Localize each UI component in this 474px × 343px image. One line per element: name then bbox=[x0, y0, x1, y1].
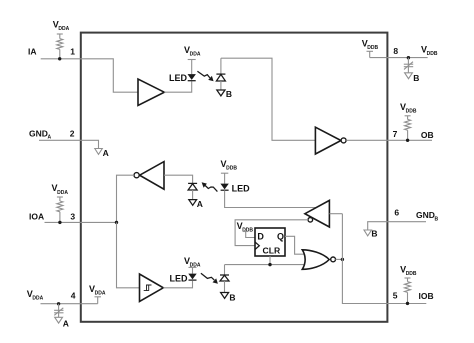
junction pin4/C1 bbox=[57, 302, 60, 305]
internal VDDA tap at pin 4 bbox=[81, 297, 101, 304]
capacitor C1 (VDDA bypass) bbox=[54, 304, 63, 318]
ground A (photodiode D5) bbox=[189, 200, 197, 206]
junction IOA internal node bbox=[115, 221, 118, 224]
pin 2 label GNDA bbox=[29, 128, 52, 140]
IOB internal vertical net bbox=[342, 214, 387, 304]
svg-text:GND: GND bbox=[416, 210, 435, 220]
svg-text:IOA: IOA bbox=[29, 212, 44, 222]
ground B (photodiode D6) bbox=[221, 293, 229, 299]
svg-text:8: 8 bbox=[393, 46, 398, 56]
wire U3 input from photodiode D5 bbox=[164, 175, 193, 183]
supply label VDDB (LED D2) bbox=[221, 159, 238, 172]
supply label VDDB (pin 5 pull-up) bbox=[400, 264, 417, 277]
pin 4 external wire bbox=[41, 303, 81, 305]
wire U2 output to pin 7 bbox=[346, 139, 387, 141]
photodiode D5 (receive, channel 2) bbox=[188, 183, 197, 199]
VDDA supply bar and wire to LED D1 anode bbox=[188, 60, 196, 75]
svg-text:1: 1 bbox=[70, 46, 75, 56]
svg-text:DDA: DDA bbox=[32, 296, 43, 302]
wire U4 input from IOB node bbox=[329, 213, 342, 215]
optical path arrow channel 2 bbox=[202, 182, 218, 191]
supply label VDDA (LED D1) bbox=[184, 45, 201, 58]
wire CLR to receive net bbox=[269, 256, 271, 265]
svg-text:A: A bbox=[63, 319, 69, 329]
NOR gate G1 bbox=[302, 250, 329, 269]
svg-text:DDA: DDA bbox=[95, 291, 106, 297]
ground A (pin 2) bbox=[95, 149, 103, 155]
svg-text:LED: LED bbox=[170, 273, 189, 283]
pin 5 external wire bbox=[387, 303, 426, 305]
supply label VDDB (pin 7 pull-up) bbox=[400, 102, 417, 115]
IC body outline bbox=[81, 33, 388, 322]
pin 1 external wire bbox=[41, 58, 81, 60]
VDDA supply bar and wire to LED D3 anode bbox=[189, 267, 197, 273]
pin 1 internal wire to buffer U1 bbox=[81, 59, 138, 92]
wire LED D2 cathode to buffer U4 output bbox=[225, 190, 317, 207]
svg-text:A: A bbox=[103, 148, 109, 158]
U4 inverting output bubble bbox=[308, 218, 313, 223]
svg-text:3: 3 bbox=[70, 211, 75, 221]
svg-text:GND: GND bbox=[29, 128, 48, 138]
pin 7 external wire bbox=[387, 139, 432, 141]
svg-text:OB: OB bbox=[421, 130, 434, 140]
buffer U1 (channel A to B driver) bbox=[138, 79, 164, 106]
resistor R2 (VDDA pull-up on IOA) bbox=[57, 197, 63, 222]
svg-text:B: B bbox=[413, 73, 419, 83]
wire G1 output to IOB node bbox=[336, 258, 343, 260]
junction CLR/receive net bbox=[268, 263, 271, 266]
ground B (pin 8 bypass) bbox=[405, 73, 413, 79]
supply label VDDA (pin 3 pull-up) bbox=[52, 183, 69, 196]
internal VDDB tap at pin 8 bbox=[367, 51, 387, 57]
svg-text:B: B bbox=[435, 216, 439, 222]
pin 3 external wire bbox=[45, 221, 81, 223]
svg-text:6: 6 bbox=[394, 208, 399, 218]
svg-text:A: A bbox=[197, 199, 203, 209]
svg-text:7: 7 bbox=[393, 129, 398, 139]
pin 6 label GNDB bbox=[416, 210, 439, 222]
svg-text:DDB: DDB bbox=[406, 271, 417, 277]
supply label VDDA (internal, pin 4) bbox=[89, 284, 106, 297]
supply label VDDB (internal, pin 8) bbox=[362, 39, 379, 52]
buffer U4 (IOB sense, complementary outputs) bbox=[305, 200, 330, 227]
wire Q output to NOR G1 input bbox=[285, 236, 305, 254]
wire U3 output to IOA node bbox=[117, 175, 135, 222]
pin 2 wire bbox=[39, 140, 99, 148]
junction pin3/R2 bbox=[58, 221, 61, 224]
optical path arrow channel 3 bbox=[201, 273, 218, 284]
wire photodiode D6 to NOR G1 and CLR bbox=[225, 264, 305, 266]
svg-text:LED: LED bbox=[169, 73, 188, 83]
supply label VDDA (LED D3) bbox=[184, 256, 201, 269]
svg-text:DDB: DDB bbox=[367, 45, 378, 51]
wire U1 output to LED D1 bbox=[164, 81, 191, 92]
ground A (pin 4 bypass) bbox=[55, 317, 63, 323]
wire photodiode D4 to inverter U2 input bbox=[221, 58, 316, 140]
LED D3 (transmit LED, channel 3) bbox=[188, 274, 196, 281]
junction pin7/R3 bbox=[406, 139, 409, 142]
svg-text:2: 2 bbox=[70, 129, 75, 139]
svg-text:B: B bbox=[371, 229, 377, 239]
pin 8 external wire bbox=[387, 57, 428, 59]
resistor R1 (VDDA pull-up on IA) bbox=[57, 34, 63, 59]
photodiode D4 (receive, channel 1) bbox=[216, 58, 225, 90]
junction pin5/R4 bbox=[406, 302, 409, 305]
svg-text:D: D bbox=[257, 231, 264, 241]
junction pin1/R1 bbox=[58, 57, 61, 60]
LED D2 (transmit LED, channel 2) bbox=[220, 184, 228, 191]
pin 3 internal wire bbox=[81, 221, 117, 223]
svg-text:CLR: CLR bbox=[263, 245, 281, 255]
U6 clock wedge bbox=[255, 242, 259, 250]
inverter U2 (output driver OB) bbox=[315, 127, 346, 154]
junction G1 output / IOB vertical bbox=[341, 258, 344, 261]
optical path arrow channel 1 bbox=[197, 71, 213, 81]
svg-text:DDA: DDA bbox=[57, 190, 68, 196]
G1 output bubble bbox=[331, 257, 336, 262]
svg-text:DDA: DDA bbox=[58, 26, 69, 32]
ground B (photodiode D4) bbox=[217, 90, 225, 96]
svg-text:DDB: DDB bbox=[427, 51, 438, 57]
junction pin8/C2 bbox=[407, 56, 410, 59]
svg-text:DDB: DDB bbox=[242, 228, 253, 234]
pin 6 wire bbox=[368, 222, 426, 230]
svg-text:IA: IA bbox=[28, 46, 37, 56]
wire IOA node to schmitt buffer U5 input bbox=[117, 222, 140, 287]
VDDB supply bar and wire to LED D2 anode bbox=[221, 173, 228, 184]
resistor R4 (VDDB pull-up on IOB) bbox=[405, 278, 411, 304]
photodiode D6 (receive, channel 3) bbox=[220, 265, 229, 293]
svg-text:DDB: DDB bbox=[406, 109, 417, 115]
wire VDDB to DFF D input bbox=[243, 232, 255, 238]
svg-text:B: B bbox=[226, 89, 232, 99]
supply label VDDB (DFF data) bbox=[237, 221, 254, 234]
svg-text:Q: Q bbox=[277, 231, 284, 241]
D flip-flop U6 bbox=[255, 228, 285, 256]
svg-text:DDA: DDA bbox=[190, 52, 201, 58]
svg-text:LED: LED bbox=[232, 184, 251, 194]
svg-text:DDB: DDB bbox=[226, 166, 237, 172]
schmitt hysteresis symbol (U5) bbox=[144, 285, 152, 290]
svg-text:5: 5 bbox=[393, 290, 398, 300]
supply label VDDB (pin 8 external) bbox=[421, 44, 438, 57]
pin 4 label VDDA bbox=[27, 289, 44, 302]
svg-text:IOB: IOB bbox=[419, 291, 434, 301]
wire U4 inverting output to DFF clock bbox=[235, 220, 308, 246]
resistor R3 (VDDB pull-up on OB) bbox=[405, 116, 411, 141]
supply label VDDA (pin 1 pull-up) bbox=[53, 20, 70, 33]
ground B (pin 6) bbox=[364, 230, 372, 236]
capacitor C2 (VDDB bypass) bbox=[404, 58, 413, 73]
LED D1 (transmit LED, channel 1) bbox=[188, 74, 196, 81]
inverter U3 (receive driver IOA) bbox=[134, 162, 164, 190]
svg-text:4: 4 bbox=[71, 290, 76, 300]
wire U5 output to LED D3 bbox=[163, 281, 192, 288]
svg-text:B: B bbox=[229, 293, 235, 303]
schmitt buffer U5 (channel A to B driver 2) bbox=[140, 274, 164, 302]
